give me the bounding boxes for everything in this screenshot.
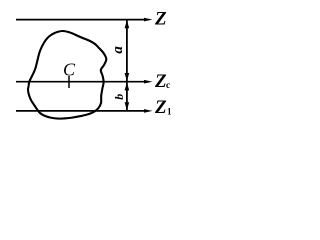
section outline (irregular cross-section blob) <box>28 31 106 119</box>
axis Z1 (bottom horizontal line) <box>16 110 147 112</box>
svg-text:c: c <box>166 80 170 90</box>
svg-text:Z: Z <box>154 97 167 118</box>
dimension line (vertical) <box>126 20 128 111</box>
arrowhead axis Zc <box>144 80 153 84</box>
svg-text:C: C <box>63 59 76 79</box>
axis Z (top horizontal line) <box>16 19 147 21</box>
svg-text:Z: Z <box>154 8 167 29</box>
arrowhead axis Z1 <box>144 109 153 113</box>
arrowhead up below middle axis (dimension b) <box>125 82 130 90</box>
arrowhead down at middle axis (dimension a) <box>125 73 130 81</box>
arrowhead axis Z <box>144 18 153 22</box>
arrowhead down at bottom axis <box>125 102 130 110</box>
svg-text:a: a <box>110 46 126 54</box>
svg-text:1: 1 <box>167 107 172 117</box>
svg-text:b: b <box>112 94 126 100</box>
centroid tick <box>68 76 70 88</box>
arrowhead up at top axis <box>125 20 130 28</box>
axis Zc (middle horizontal line through centroid) <box>16 81 147 83</box>
